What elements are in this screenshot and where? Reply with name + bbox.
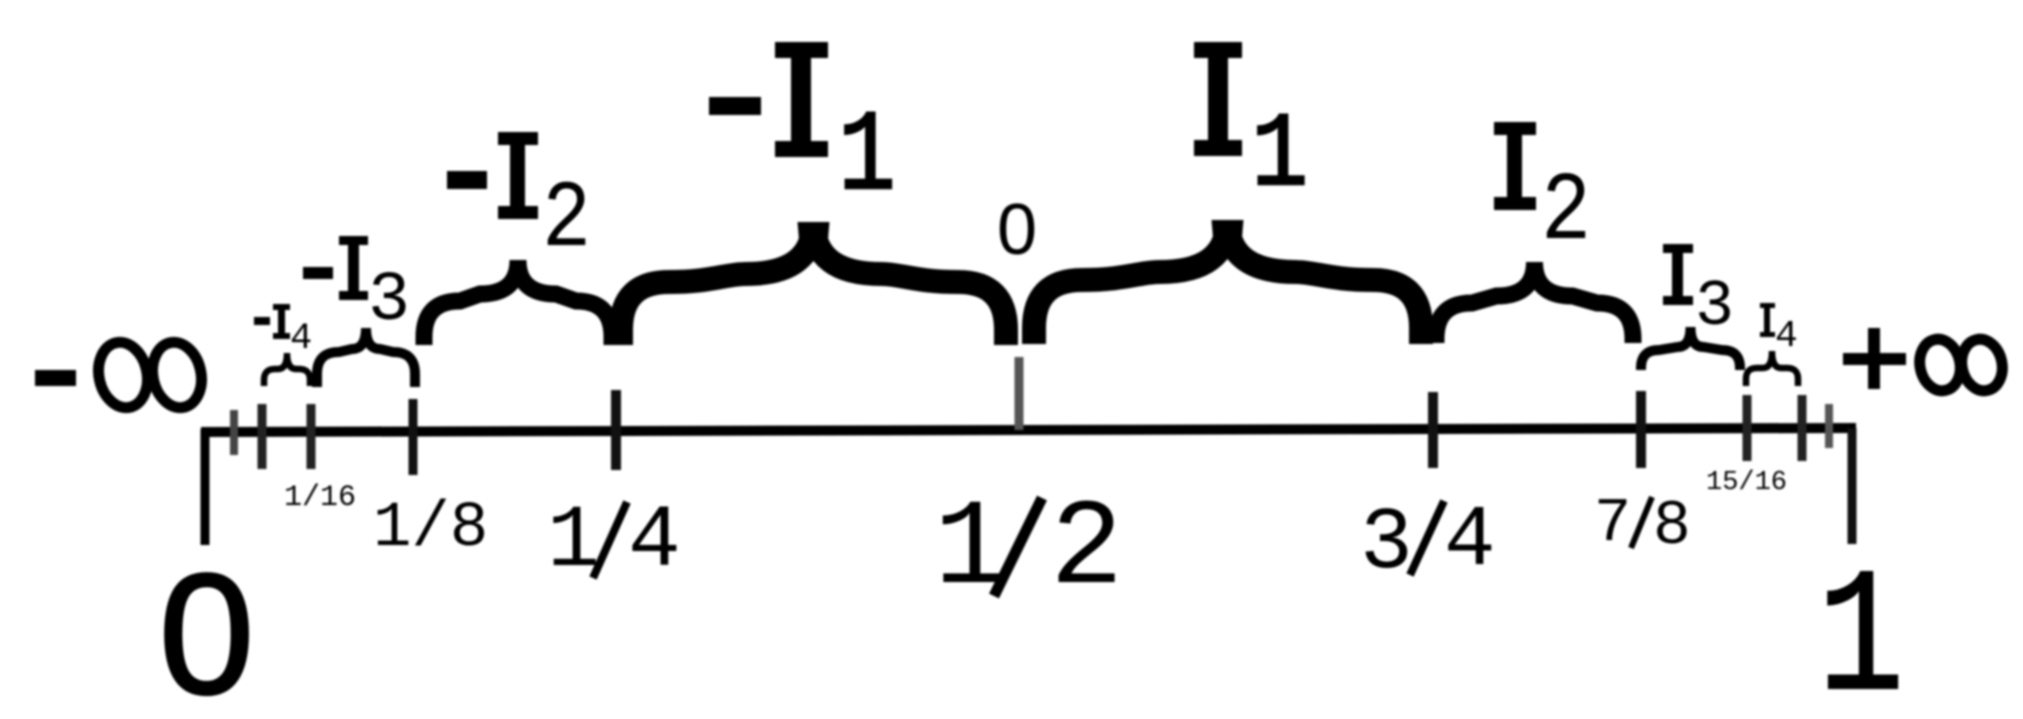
fraction 3/4 — [1360, 492, 1496, 594]
tick 7/8 — [1636, 391, 1646, 468]
svg-text:1: 1 — [838, 93, 895, 223]
tick 1/2 (above line only) — [1015, 357, 1024, 430]
brace -I2 over [1/8,1/4] — [424, 260, 612, 345]
svg-text:2: 2 — [1050, 480, 1123, 619]
svg-text:4: 4 — [290, 318, 312, 360]
svg-text:3: 3 — [368, 262, 410, 341]
tick 1/4 — [611, 390, 621, 470]
brace I2 over [3/4,7/8] — [1436, 262, 1633, 343]
brace -I3 over [1/16,1/8] — [317, 328, 415, 387]
svg-text:4: 4 — [1775, 315, 1798, 358]
left axis corner vertical at 0 — [201, 429, 210, 545]
svg-text:4: 4 — [628, 493, 681, 592]
brace I4 over [15/16,31/32] — [1746, 351, 1798, 386]
tick 1/64 — [230, 410, 238, 455]
svg-text:1: 1 — [1251, 97, 1308, 216]
brace I3 over [7/8,15/16] — [1641, 327, 1740, 370]
tick 1/32 — [258, 404, 267, 469]
tick 15/16 — [1743, 395, 1752, 461]
label -I2 — [447, 132, 591, 274]
tick 1/16 — [307, 404, 316, 469]
tick 63/64 — [1825, 404, 1833, 448]
label -I4 — [254, 304, 312, 360]
tick 1/8 — [409, 399, 418, 475]
label -I1 — [709, 42, 896, 223]
svg-text:2: 2 — [542, 166, 591, 274]
brace -I4 over [1/32,1/16] — [264, 353, 310, 386]
svg-text:0: 0 — [997, 190, 1037, 270]
brace -I1 over [1/4,1/2] — [621, 222, 1006, 345]
brace -I1 apex nub — [798, 222, 830, 257]
fraction 7/8 — [1594, 488, 1691, 562]
tick 3/4 — [1428, 392, 1438, 468]
svg-text:0: 0 — [159, 539, 254, 719]
label -infinity — [35, 338, 207, 413]
label I1 — [1194, 42, 1308, 216]
tick 31/32 — [1798, 395, 1807, 461]
svg-text:2: 2 — [1541, 159, 1591, 268]
label +infinity — [1843, 328, 2007, 395]
label I2 — [1494, 122, 1591, 268]
label -I3 — [303, 236, 410, 341]
svg-text:7: 7 — [1594, 488, 1631, 559]
svg-text:1/8: 1/8 — [373, 493, 488, 565]
svg-text:4: 4 — [1444, 492, 1496, 590]
svg-text:8: 8 — [1653, 491, 1691, 562]
svg-text:3: 3 — [1360, 495, 1413, 594]
fraction 1/4 — [547, 493, 681, 592]
main number line — [201, 428, 1856, 432]
brace I1 apex nub — [1212, 220, 1244, 255]
label I3 — [1663, 244, 1734, 344]
svg-text:1: 1 — [1818, 543, 1905, 719]
fraction 1/2 — [934, 480, 1123, 619]
brace I1 over [1/2,3/4] — [1034, 220, 1421, 344]
svg-text:1: 1 — [934, 480, 1007, 619]
svg-text:15/16: 15/16 — [1706, 468, 1787, 498]
svg-text:1/16: 1/16 — [284, 481, 356, 515]
label I4 — [1760, 303, 1798, 358]
svg-text:3: 3 — [1695, 270, 1734, 344]
right axis corner vertical at 1 — [1848, 428, 1857, 544]
